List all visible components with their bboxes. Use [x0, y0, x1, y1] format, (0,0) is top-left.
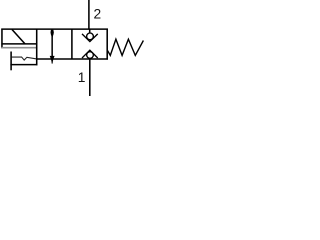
check poppet: lower ball [87, 52, 94, 59]
valve V1: divider between positions [71, 29, 73, 60]
svg-text:2: 2 [94, 7, 102, 22]
valve V1: envelope left edge shared with coil box (extended to override line) [36, 29, 38, 66]
valve V1: envelope bottom edge [36, 58, 108, 60]
check poppet: upper ball [87, 33, 94, 40]
manual override: lever bar [10, 52, 12, 71]
valve V1: envelope right edge [106, 29, 108, 60]
solenoid U1: diagonal stroke inside coil box [12, 30, 25, 44]
manual override: push-pin line with V notch [12, 57, 37, 60]
solenoid U1: coil box bottom edge [1, 43, 36, 45]
wire: bottom return line of override linkage [10, 64, 37, 66]
flow arrow: shaft in open position square [51, 33, 53, 59]
check poppet: upper seat V [82, 34, 98, 42]
spring: return spring zigzag [107, 39, 143, 55]
wire: stem from port 2 to poppet ball [89, 29, 91, 33]
wire: top edge of solenoid box and valve envelope [1, 28, 108, 30]
flow arrow: upper arrowhead [51, 30, 54, 37]
solenoid U1: coil box left edge [1, 29, 3, 49]
wire: port 1 line [89, 59, 91, 96]
wire: thin armature line under solenoid [1, 47, 37, 49]
svg-text:1: 1 [78, 70, 86, 85]
check poppet: lower seat V [82, 50, 98, 58]
flow arrow: lower arrowhead [50, 56, 55, 64]
wire: port 2 line [88, 0, 90, 29]
